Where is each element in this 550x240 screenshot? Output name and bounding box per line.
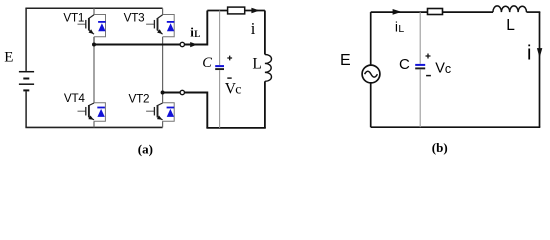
svg-text:i: i xyxy=(527,42,531,64)
load loop bottom wire (a) xyxy=(206,127,265,129)
terminal circle on output wire 1 xyxy=(180,42,184,46)
capacitor C (b) plates xyxy=(415,64,425,66)
svg-text:V: V xyxy=(435,60,445,76)
current arrow i pointing down (b) xyxy=(537,48,542,58)
transistor VT3 (IGBT) xyxy=(146,15,163,34)
svg-text:VT2: VT2 xyxy=(129,92,150,105)
right wire of loop (b) xyxy=(539,12,541,127)
svg-text:(a): (a) xyxy=(138,141,153,156)
VT1 parallel loop frame xyxy=(94,15,106,37)
battery E lower lead xyxy=(25,91,27,127)
svg-text:L: L xyxy=(506,17,515,34)
diode D3 (antiparallel, blue) xyxy=(167,22,175,31)
plus sign (b) xyxy=(426,54,431,59)
VT2 parallel loop frame xyxy=(163,103,175,121)
iL current arrow (a) xyxy=(190,42,197,47)
diode D1 (antiparallel, blue) xyxy=(98,22,106,31)
VT3 parallel loop frame xyxy=(163,15,175,37)
current arrow i (a) xyxy=(251,8,259,14)
svg-text:VT4: VT4 xyxy=(64,92,86,105)
svg-text:(b): (b) xyxy=(432,140,448,155)
svg-text:C: C xyxy=(399,56,410,73)
VT4 parallel loop frame xyxy=(94,103,105,121)
battery E upper lead xyxy=(25,8,27,71)
transistor VT2 (IGBT) xyxy=(146,103,163,120)
plus sign (a) xyxy=(227,56,232,61)
resistor R (b) box on top wire xyxy=(428,9,443,15)
terminal circle on output wire 2 xyxy=(180,90,184,94)
top wire of loop (b) xyxy=(371,11,493,13)
svg-text:VT3: VT3 xyxy=(124,12,145,25)
svg-text:c: c xyxy=(445,62,451,76)
inductor L coil (b) xyxy=(493,6,527,12)
capacitor C (a) plates xyxy=(215,65,224,67)
left bridge branch wire segments xyxy=(93,8,95,14)
sine wave inside source xyxy=(365,71,378,77)
svg-text:E: E xyxy=(4,50,13,66)
svg-text:L: L xyxy=(252,55,261,72)
AC source E circle (b) xyxy=(362,65,380,83)
capacitor C (a) bottom lead xyxy=(219,70,221,128)
iL current arrow (b) xyxy=(393,9,402,15)
capacitor C (b) bottom lead xyxy=(419,69,421,127)
bottom wire of loop (b) xyxy=(371,126,541,128)
diode D4 (antiparallel, blue) xyxy=(97,108,105,117)
transistor VT1 (IGBT) xyxy=(78,15,95,34)
top rail wire (a) xyxy=(25,7,162,9)
svg-text:E: E xyxy=(340,52,351,69)
svg-text:c: c xyxy=(235,83,241,98)
inductor L coil (a) xyxy=(265,54,272,81)
load loop top wire (a) xyxy=(207,10,265,12)
bottom rail wire (a) xyxy=(25,126,162,128)
capacitor C (b) top lead xyxy=(419,12,421,64)
minus sign (a) xyxy=(227,77,231,79)
battery E plates xyxy=(19,72,34,91)
left wire of loop (b) xyxy=(370,12,372,65)
output wire 2 from right midpoint down to load bottom xyxy=(162,93,208,128)
transistor VT4 (IGBT) xyxy=(78,103,95,120)
node: right branch midpoint junction xyxy=(161,91,165,95)
svg-text:i: i xyxy=(251,19,256,38)
load loop right wire segments (a) xyxy=(264,11,266,55)
diode D2 (antiparallel, blue) xyxy=(167,108,175,117)
svg-text:L: L xyxy=(398,23,404,35)
minus sign (b) xyxy=(426,75,431,77)
svg-text:C: C xyxy=(202,55,212,71)
output wire 1 (iL) from left midpoint up to load xyxy=(93,11,207,45)
svg-text:VT1: VT1 xyxy=(63,12,84,25)
capacitor C (a) top lead xyxy=(219,11,221,66)
right bridge branch wire segments xyxy=(162,8,164,14)
resistor R (a) box on load top wire xyxy=(228,7,245,14)
svg-text:L: L xyxy=(194,29,200,39)
node: left branch midpoint junction xyxy=(92,43,96,47)
